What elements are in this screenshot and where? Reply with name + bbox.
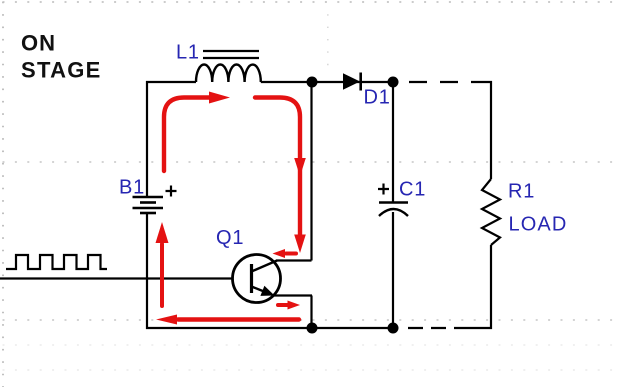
wire node C to node D <box>312 327 393 329</box>
wire dashed bottom-right to node C <box>408 327 465 329</box>
wire top-right corner down to R1 <box>489 82 491 179</box>
wire L1 to node A <box>261 81 312 83</box>
transistor Q1 <box>233 255 281 303</box>
node A junction dot <box>307 77 318 88</box>
wire node A to D1 <box>312 81 393 83</box>
svg-text:D1: D1 <box>364 87 391 109</box>
title ON STAGE <box>21 31 102 83</box>
plus sign C1 polarity <box>378 184 389 195</box>
red current arrow out of emitter (right) <box>278 301 300 310</box>
wire left rail lower (battery - down) <box>146 213 148 329</box>
svg-text:LOAD: LOAD <box>509 213 568 235</box>
wire R1 bottom to bottom-right corner <box>465 245 491 328</box>
wire C1 to node C <box>392 212 394 328</box>
wire C1 rail upper (node B to C1) <box>392 82 394 202</box>
svg-text:L1: L1 <box>176 41 200 63</box>
red current arrow into collector (left) <box>273 249 297 258</box>
node C junction dot <box>388 323 399 334</box>
red current arrow L1 to collector rail (right-down) <box>255 98 306 254</box>
svg-text:ON: ON <box>21 31 56 56</box>
svg-text:B1: B1 <box>119 176 145 198</box>
wire middle rail (node A to collector) <box>310 82 312 261</box>
svg-text:R1: R1 <box>508 181 535 203</box>
svg-text:C1: C1 <box>399 179 426 201</box>
plus sign B1 polarity <box>166 186 177 197</box>
wire collector to Q1 <box>276 259 312 261</box>
wire left rail upper (to battery +) <box>146 81 148 196</box>
red current arrow battery to L1 (up-right) <box>164 92 230 172</box>
red current arrow bottom return (left) <box>156 315 299 325</box>
wire top-left horizontal (battery + to L1) <box>146 81 196 83</box>
red current arrow up into battery minus <box>156 222 169 306</box>
square wave input signal <box>6 255 107 269</box>
svg-text:Q1: Q1 <box>216 227 244 249</box>
inductor L1 <box>196 51 261 82</box>
capacitor C1 <box>379 203 408 217</box>
wire base (square-wave input to Q1) <box>0 277 233 279</box>
svg-text:STAGE: STAGE <box>21 58 102 83</box>
wire dashed node B to top-right <box>409 81 491 83</box>
wire emitter to rail <box>274 294 312 296</box>
node B junction dot <box>388 77 399 88</box>
node D junction dot <box>307 323 318 334</box>
wire emitter rail down to node D <box>310 296 312 329</box>
wire bottom (node D to battery -) <box>146 327 312 329</box>
resistor R1 <box>482 179 500 245</box>
diode D1 <box>343 73 361 91</box>
battery B1 <box>133 197 164 213</box>
